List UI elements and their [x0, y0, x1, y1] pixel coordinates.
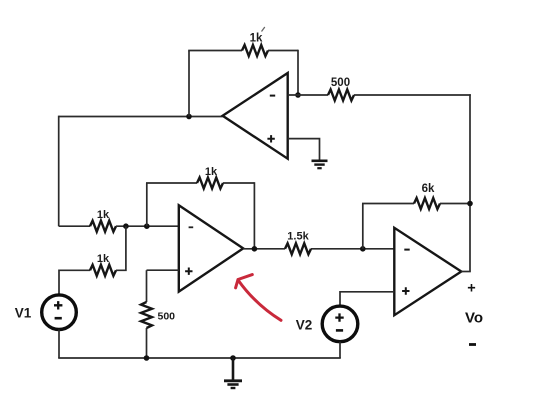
wire: R2 to right rail [354, 94, 471, 96]
wire: vertical from U2 non-inverting down to R6 [146, 270, 148, 302]
op-amp U1 (left-pointing) [223, 73, 288, 159]
stray accent mark above 1k label [262, 27, 265, 32]
junction: ground tap on bottom rail [230, 355, 236, 361]
U2 non-inverting pin sign (+) [185, 268, 192, 275]
resistor R7 1.5k (U2 output to U3 inverting) [285, 243, 311, 254]
junction: U1 inverting input node [295, 92, 301, 98]
wire: R1 feedback top right segment [268, 50, 298, 52]
resistor R2 500 (U1 input from Vo rail) [328, 90, 354, 101]
svg-text:1k: 1k [97, 253, 110, 265]
resistor R4 1k (V1 to inverting node) [90, 265, 116, 276]
red annotation arrow pointing at U2 output [236, 275, 281, 321]
svg-text:6k: 6k [422, 183, 435, 195]
wire: bottom ground rail [58, 357, 341, 359]
V1 polarity plus [54, 301, 62, 309]
wire: R7 to U3 inverting input [311, 248, 394, 250]
V1 polarity minus [55, 317, 62, 320]
svg-text:1k: 1k [250, 33, 263, 45]
wire: U1 output to left rail (node A) [59, 116, 223, 118]
wire: U1 non-inverting input to ground stub [288, 139, 320, 160]
wire: R5 feedback top left segment [146, 182, 197, 184]
junction: R8 feedback on right rail [467, 201, 473, 207]
junction: R6 on bottom rail [144, 355, 150, 361]
svg-text:V2: V2 [296, 318, 313, 333]
svg-text:1.5k: 1.5k [287, 231, 309, 243]
U1 non-inverting pin sign (+) [267, 135, 274, 142]
wire: U1 inverting input row to R2 [288, 94, 328, 96]
wire: R6 bottom lead to bottom rail [146, 328, 148, 358]
wire: U2 non-inverting input row [147, 269, 179, 271]
U2 inverting pin sign (-) [189, 226, 194, 228]
wire: V2 top lead to U3 non-inverting input [340, 292, 394, 306]
label output minus terminal [469, 343, 476, 346]
wire: R1 feedback top left segment [188, 50, 242, 52]
resistor R6 500 (U2 non-inverting to ground rail) [141, 302, 152, 328]
wire: R1 feedback left vertical [188, 51, 190, 117]
svg-text:500: 500 [331, 77, 350, 89]
V2 polarity plus [335, 313, 343, 321]
U1 inverting pin sign (-) [270, 95, 275, 97]
svg-text:Vo: Vo [465, 310, 483, 327]
wire: right rail (Vo) vertical [469, 94, 471, 271]
wire: U2 output row through R7 to U3 [243, 248, 285, 250]
svg-text:500: 500 [158, 311, 176, 323]
ground G1 (U1 non-inverting input) [312, 161, 328, 168]
wire: R5 feedback right vertical down to U2 output [253, 182, 255, 249]
wire: R3 to U2 inverting input [116, 225, 179, 227]
resistor R3 1k (left rail to U2 inverting) [90, 221, 116, 232]
U3 inverting pin sign (-) [404, 249, 409, 251]
wire: R5 feedback top right segment [223, 182, 254, 184]
op-amp U2 (middle, right-pointing) [179, 205, 243, 291]
voltage source V1 [42, 295, 77, 330]
junction: V1 branch joins inverting node [123, 223, 129, 229]
wire: R1 feedback right vertical to U1 inverting input [297, 50, 299, 95]
wire: R8 to right rail [440, 203, 470, 205]
wire: V1 top lead up and right to R4 [59, 270, 90, 295]
wire: R8 feedback left vertical [362, 204, 364, 249]
voltage source V2 [322, 306, 358, 342]
svg-text:1k: 1k [205, 166, 218, 178]
junction: U2 output / R5 feedback [252, 246, 258, 252]
svg-text:1k: 1k [97, 209, 110, 221]
wire: left rail vertical down to U2 inverting row [58, 116, 60, 227]
resistor R8 6k (U3 feedback) [414, 198, 440, 209]
ground G2 (bottom rail) [224, 358, 242, 388]
wire: U3 output to right rail [461, 271, 471, 273]
resistor R5 1k (U2 feedback) [197, 178, 223, 189]
wire: V2 bottom lead to bottom rail [339, 342, 341, 358]
wire: R5 feedback left vertical [146, 183, 148, 226]
V2 polarity minus [336, 329, 343, 332]
junction: U1 output / R1 feedback tap [186, 114, 192, 120]
wire: V1 bottom lead to bottom rail [58, 330, 60, 359]
junction: R8 feedback joins U3 inverting node [360, 246, 366, 252]
op-amp U3 (right, right-pointing) [394, 228, 461, 315]
resistor R1 1k (U1 feedback) [242, 45, 268, 56]
junction: R5 feedback joins inverting node [144, 223, 150, 229]
wire: R4 right lead up to inverting node [116, 226, 126, 270]
wire: U2 inverting row from left rail to U2 [59, 225, 90, 227]
wire: R8 feedback top left segment [362, 203, 414, 205]
svg-text:V1: V1 [15, 306, 32, 321]
U3 non-inverting pin sign (+) [402, 287, 409, 294]
svg-text:+: + [467, 281, 475, 297]
